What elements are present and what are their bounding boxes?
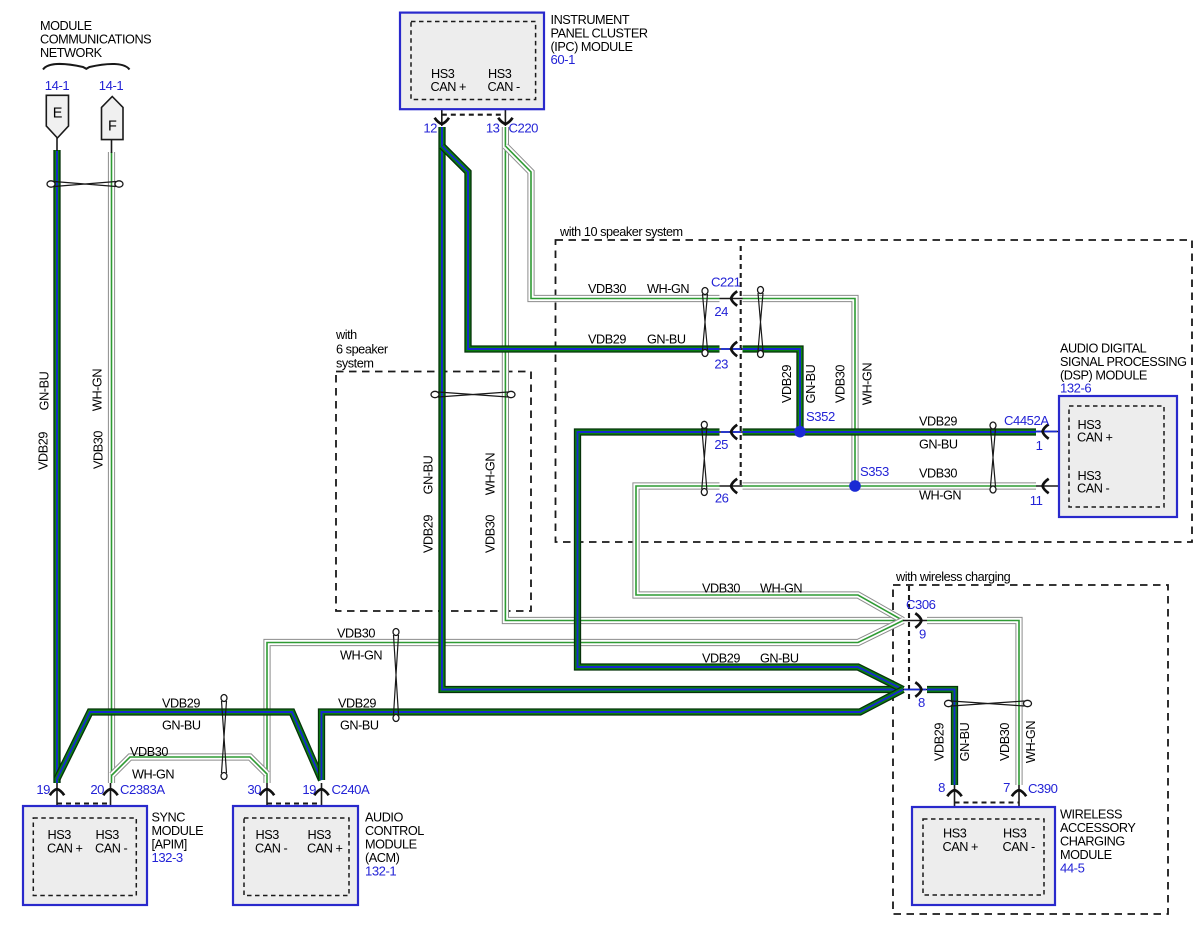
svg-text:WH-GN: WH-GN [340,649,382,663]
dashed region: with 6 speaker system [336,372,531,612]
arrow into DSP pin 1 [1043,424,1049,438]
wire VDB30 WH-GN from C221 pin 24 to splice S353 [743,299,856,487]
svg-text:F: F [108,119,117,135]
svg-text:25: 25 [714,437,728,452]
svg-text:CAN -: CAN - [1003,840,1036,854]
wire VDB29 GN-BU from C221 pin 25 down and right to C306 pin 8 upper arm [578,432,904,690]
svg-text:GN-BU: GN-BU [804,364,818,403]
connector C221 dashed line [740,246,742,489]
wire VDB29 GN-BU from C221 pin 23 down to splice S352 [743,349,801,432]
svg-text:WH-GN: WH-GN [861,363,875,405]
wire VDB30 WH-GN from C306 pin 9 to WACM pin 7 [927,621,1019,786]
svg-text:19: 19 [302,782,316,797]
svg-text:VDB30: VDB30 [998,723,1012,761]
pin line WACM pin 7 [1018,785,1020,819]
svg-text:VDB29: VDB29 [162,697,200,711]
svg-text:WH-GN: WH-GN [91,369,105,411]
arrow into C221 pin 23 [731,342,737,356]
svg-text:26: 26 [715,491,729,506]
svg-text:CAN +: CAN + [943,840,979,854]
arrow into C306 pin 8 [915,682,921,696]
svg-text:with 10 speaker system: with 10 speaker system [559,225,683,239]
svg-text:C221: C221 [711,275,741,290]
svg-text:C306: C306 [906,597,936,612]
svg-text:VDB30: VDB30 [919,467,957,481]
svg-text:132-3: 132-3 [152,850,183,865]
svg-text:VDB29: VDB29 [780,365,794,403]
svg-text:GN-BU: GN-BU [958,722,972,761]
pin line connector F [111,140,113,153]
arrow into SYNC pin 20 [103,789,117,795]
wire VDB29 GN-BU from C306 pin 8 to WACM pin 8 [927,690,955,786]
svg-text:HS3: HS3 [431,67,455,81]
arrow into C306 pin 9 [915,613,921,627]
arrow into C221 pin 25 [731,425,737,439]
svg-text:CAN -: CAN - [255,842,288,856]
wire VDB29 GN-BU from connector E down to SYNC pin 19 [53,150,60,783]
arrow into DSP pin 11 [1043,479,1049,493]
arrow into IPC pin 13 [498,118,512,124]
twisted pair symbol WACM pair [945,700,1032,706]
twisted pair symbol right of ACM [393,629,399,722]
svg-text:HS3: HS3 [48,828,72,842]
svg-text:VDB29: VDB29 [702,652,740,666]
svg-text:WH-GN: WH-GN [1024,721,1038,763]
svg-text:WIRELESS: WIRELESS [1060,808,1122,822]
arrow into WACM pin 8 [947,790,961,796]
splice S352 [794,426,806,438]
svg-text:C2383A: C2383A [120,782,165,797]
twisted pair symbol E/F wires [47,181,123,187]
module box: SYNC MODULE APIM [23,806,147,905]
pin line connector E [56,138,58,151]
svg-text:SYNC: SYNC [152,811,186,825]
svg-text:VDB30: VDB30 [130,745,168,759]
svg-text:HS3: HS3 [256,828,280,842]
svg-text:S352: S352 [806,409,835,424]
pin line C221 pin 26 [720,485,743,487]
svg-text:VDB30: VDB30 [92,431,106,469]
twisted pair symbol left of C221 pins 24/23 [702,288,708,357]
svg-text:CONTROL: CONTROL [365,824,424,838]
svg-text:VDB29: VDB29 [338,697,376,711]
svg-text:C240A: C240A [332,782,371,797]
svg-text:MODULE: MODULE [365,838,417,852]
module box: AUDIO CONTROL MODULE ACM [233,806,358,905]
svg-text:13: 13 [486,121,500,136]
svg-text:HS3: HS3 [943,827,967,841]
connector C390 dashed bracket [955,801,1020,803]
svg-text:8: 8 [938,780,945,795]
pin line C306 pin 8 [903,689,927,691]
pin line C221 pin 24 [720,298,743,300]
svg-text:CAN +: CAN + [1077,431,1113,445]
svg-text:MODULE: MODULE [40,19,92,33]
svg-text:HS3: HS3 [1003,827,1027,841]
svg-text:VDB29: VDB29 [588,333,626,347]
pin line SYNC pin 19 [56,783,58,818]
arrow into WACM pin 7 [1012,790,1026,796]
pin line C306 pin 9 [903,620,927,622]
svg-text:WH-GN: WH-GN [647,282,689,296]
svg-text:HS3: HS3 [308,828,332,842]
svg-text:MODULE: MODULE [152,824,204,838]
svg-text:VDB29: VDB29 [919,415,957,429]
wire VDB29 GN-BU branch from IPC pin 12 to C221 pin 23 [442,146,720,349]
wire VDB30 WH-GN from IPC pin 13 down, middle branch to C306 pin 9 [505,127,903,621]
svg-text:132-1: 132-1 [365,864,396,879]
twisted pair symbol SYNC pair [221,695,227,780]
arrow into SYNC pin 19 [50,789,64,795]
wire VDB30 WH-GN from connector F down to SYNC pin 20 [108,152,115,783]
pin line ACM pin 30 [266,783,268,818]
svg-text:WH-GN: WH-GN [760,582,802,596]
svg-text:11: 11 [1030,493,1043,508]
svg-text:CAN +: CAN + [307,842,343,856]
svg-text:AUDIO: AUDIO [365,811,404,825]
wire VDB29 GN-BU from IPC pin 12 down (6 speaker) to C306 pin 8 middle [442,127,903,690]
arrow into C221 pin 24 [731,291,737,305]
svg-text:WH-GN: WH-GN [132,768,174,782]
svg-text:GN-BU: GN-BU [760,652,799,666]
arrow into ACM pin 19 [314,789,328,795]
svg-text:VDB29: VDB29 [933,723,947,761]
svg-text:VDB30: VDB30 [588,282,626,296]
pin line DSP pin 1 [1036,431,1070,433]
arrow into C221 pin 26 [731,479,737,493]
svg-text:GN-BU: GN-BU [340,719,379,733]
svg-text:VDB30: VDB30 [484,515,498,553]
svg-text:24: 24 [714,304,728,319]
svg-text:GN-BU: GN-BU [919,438,958,452]
svg-text:VDB29: VDB29 [422,515,436,553]
svg-text:VDB30: VDB30 [834,365,848,403]
wire VDB30 WH-GN link SYNC pin 20 to ACM pin 30 [112,757,267,775]
svg-text:C390: C390 [1028,781,1058,796]
arrow into ACM pin 30 [260,789,274,795]
svg-text:VDB29: VDB29 [37,432,51,470]
svg-text:9: 9 [919,627,926,642]
svg-text:CAN +: CAN + [47,842,83,856]
svg-text:AUDIO DIGITAL: AUDIO DIGITAL [1060,342,1147,356]
svg-text:14-1: 14-1 [99,78,124,93]
svg-text:E: E [53,106,63,122]
blue core line at C306 pin 8 break [904,689,926,691]
pin line ACM pin 19 [321,783,323,818]
connector C2383A dashed bracket [57,802,111,804]
svg-text:132-6: 132-6 [1060,381,1091,396]
svg-text:GN-BU: GN-BU [162,719,201,733]
wire VDB29 GN-BU link SYNC pin 19 to ACM pin 19 [57,712,322,780]
wire VDB29 GN-BU from ACM pin 19 right to C306 pin 8 lower arm [322,690,904,781]
arrow into IPC pin 12 [435,118,449,124]
svg-text:system: system [336,357,373,371]
svg-text:1: 1 [1036,438,1043,453]
connector F [102,97,124,140]
svg-text:COMMUNICATIONS: COMMUNICATIONS [40,33,151,47]
pin line IPC pin 13 [504,100,506,126]
splice S353 [849,480,861,492]
module box: AUDIO DSP MODULE [1059,396,1177,517]
pin line C221 pin 25 [720,431,743,433]
pin line C221 pin 23 [720,348,743,350]
svg-text:PANEL CLUSTER: PANEL CLUSTER [551,26,648,40]
twisted pair symbol left of C221 pins 25/26 [701,421,707,495]
svg-text:12: 12 [423,121,437,136]
connector C240A dashed bracket [267,802,322,804]
wire VDB30 WH-GN from C221 pin 26 down and right to C306 pin 9 upper arm [636,486,903,621]
twisted pair symbol at C4452A [990,422,996,493]
twisted pair symbol 6 speaker wires [431,391,515,397]
blue core line at DSP pin 1 break [1036,431,1057,433]
wire VDB30 WH-GN splice S353 to DSP pin 11 [743,482,1037,489]
twisted pair symbol right of C221 pins 24/23 [758,287,764,358]
svg-text:HS3: HS3 [488,67,512,81]
svg-text:SIGNAL PROCESSING: SIGNAL PROCESSING [1060,355,1187,369]
svg-text:CAN -: CAN - [95,842,128,856]
svg-text:NETWORK: NETWORK [40,46,103,60]
svg-text:VDB30: VDB30 [702,582,740,596]
svg-text:INSTRUMENT: INSTRUMENT [551,13,630,27]
svg-text:WH-GN: WH-GN [919,489,961,503]
svg-text:14-1: 14-1 [45,78,70,93]
svg-text:19: 19 [36,782,50,797]
blue core line at C221 pin 23 break [721,348,741,350]
wire VDB30 WH-GN from ACM pin 30 up and right to C306 pin 9 lower arm [267,621,903,784]
brace over module communications network [43,64,130,69]
svg-text:60-1: 60-1 [551,52,576,67]
svg-text:HS3: HS3 [96,828,120,842]
connector C306 dashed line [908,586,910,700]
svg-text:8: 8 [918,695,925,710]
svg-text:6 speaker: 6 speaker [336,343,389,357]
svg-text:ACCESSORY: ACCESSORY [1060,821,1136,835]
module box: INSTRUMENT PANEL CLUSTER (IPC) [400,13,544,110]
svg-text:WH-GN: WH-GN [484,453,498,495]
svg-text:23: 23 [714,357,728,372]
svg-text:CHARGING: CHARGING [1060,835,1125,849]
svg-text:with: with [335,328,357,342]
svg-text:GN-BU: GN-BU [647,333,686,347]
blue core line at C221 pin 25 break [721,431,741,433]
svg-text:VDB30: VDB30 [337,627,375,641]
svg-text:CAN -: CAN - [1077,482,1110,496]
pin line IPC pin 12 [441,100,443,126]
connector E [46,95,68,138]
wire VDB29 GN-BU splice S352 to DSP pin 1 [743,428,1037,435]
module box: WIRELESS ACCESSORY CHARGING MODULE [912,807,1055,905]
wire VDB30 WH-GN branch from IPC pin 13 to C221 pin 24 [505,146,719,299]
svg-text:CAN -: CAN - [488,80,521,94]
svg-text:S353: S353 [860,464,889,479]
svg-text:44-5: 44-5 [1060,861,1085,876]
pin line SYNC pin 20 [110,783,112,818]
pin line DSP pin 11 [1036,485,1070,487]
svg-text:CAN +: CAN + [431,80,467,94]
svg-text:with wireless charging: with wireless charging [895,570,1011,584]
dashed region: with 10 speaker system [556,240,1193,542]
dashed region: with wireless charging [893,585,1168,914]
svg-text:30: 30 [247,782,261,797]
svg-text:C4452A: C4452A [1004,413,1049,428]
svg-text:7: 7 [1003,780,1010,795]
svg-text:GN-BU: GN-BU [38,371,52,410]
pin line WACM pin 8 [954,785,956,819]
svg-text:C220: C220 [509,121,539,136]
svg-text:GN-BU: GN-BU [422,455,436,494]
svg-text:20: 20 [90,782,104,797]
connector C220 dashed bracket [442,114,506,116]
